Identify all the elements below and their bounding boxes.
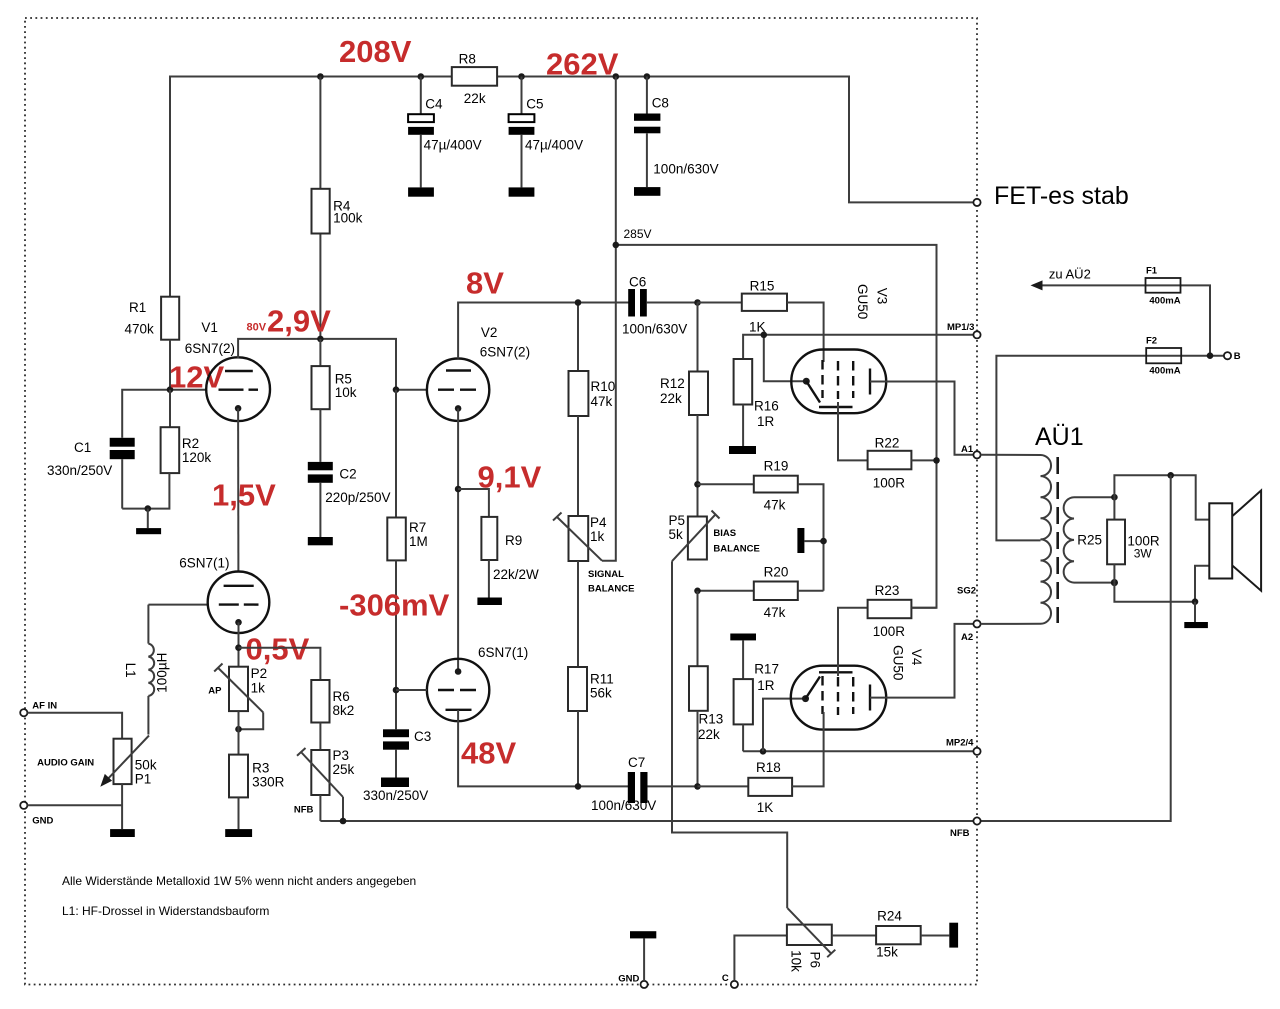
wire 285V horizontal to screen feed [616, 245, 937, 608]
potentiometer P4 SIGNAL BALANCE [553, 513, 634, 595]
svg-text:P6: P6 [808, 952, 823, 969]
wire V4 plate to A2 [870, 624, 973, 698]
wire V1b cathode to 0,5V node [238, 622, 240, 666]
resistor R19 [698, 459, 824, 591]
ground below C5 [509, 187, 535, 196]
svg-text:1M: 1M [409, 534, 428, 549]
svg-text:R7: R7 [409, 520, 426, 535]
wire 8V rail to C6 / R10 [577, 303, 579, 372]
svg-text:50k: 50k [135, 758, 157, 773]
svg-text:P2: P2 [251, 666, 268, 681]
resistor R12 [660, 372, 708, 517]
node F1/F2 junction dot [1207, 352, 1214, 359]
node V4 cathode/R17 junction dot [760, 748, 767, 755]
svg-text:47µ/400V: 47µ/400V [525, 138, 583, 153]
wire P2 to R3 [238, 711, 240, 755]
wire V2 cathode down to V2b [457, 408, 459, 673]
svg-text:R6: R6 [333, 689, 350, 704]
svg-text:P5: P5 [669, 513, 686, 528]
tube V1 6SN7(2) upper triode [185, 320, 270, 421]
svg-text:1,5V: 1,5V [212, 478, 276, 513]
wire 0,5V to R6 [239, 648, 321, 680]
resistor R20 [698, 565, 824, 620]
wire V3 screen g2 to R22 [838, 402, 868, 460]
svg-text:FET-es stab: FET-es stab [994, 182, 1129, 210]
terminal B [1224, 352, 1231, 359]
capacitor C5 [509, 77, 583, 188]
svg-text:10k: 10k [335, 385, 357, 400]
svg-text:10k: 10k [789, 950, 804, 972]
svg-text:48V: 48V [461, 736, 516, 771]
svg-text:47µ/400V: 47µ/400V [424, 138, 482, 153]
resistor R1 [125, 297, 180, 390]
svg-text:R19: R19 [764, 459, 789, 474]
svg-text:6SN7(1): 6SN7(1) [179, 555, 229, 570]
terminal GND bottom [641, 981, 648, 988]
svg-text:AP: AP [208, 685, 222, 696]
wire 285V rail / P4 wiper line [602, 77, 616, 561]
wire 12V node [122, 390, 206, 438]
transformer AÜ1 core [1056, 457, 1059, 623]
svg-text:1K: 1K [757, 800, 774, 815]
svg-text:NFB: NFB [950, 828, 970, 839]
wire secondary top to R25 [1074, 496, 1114, 498]
fuse F2 [1146, 336, 1181, 377]
node NFB tap junction dot [1167, 472, 1174, 479]
tube V3 GU50 [791, 284, 889, 413]
resistor R22 [868, 436, 937, 491]
svg-text:C: C [722, 973, 729, 984]
transformer AÜ1 primary winding [1041, 455, 1052, 624]
svg-text:R1: R1 [129, 300, 146, 315]
terminal NFB [973, 817, 980, 824]
resistor R11 [568, 667, 614, 786]
node V2 grid junction dot [393, 386, 400, 393]
svg-text:80V: 80V [247, 322, 267, 334]
wire V3 plate to A1 [870, 382, 973, 455]
svg-text:1k: 1k [590, 529, 605, 544]
wire GND to P1 bottom [27, 804, 122, 806]
node 2,9V junction dot (R4/R5) [317, 336, 324, 343]
terminal MP1/3 [973, 331, 980, 338]
speaker LS [1209, 491, 1261, 591]
wire V4 screen g2 to R23 [838, 608, 868, 676]
svg-text:-306mV: -306mV [339, 588, 450, 623]
svg-text:3W: 3W [1134, 547, 1153, 561]
svg-text:R9: R9 [505, 533, 522, 548]
node C7/R18 junction dot [694, 783, 701, 790]
node secondary top junction dot [1111, 494, 1118, 501]
ground right of R24 (vertical bar) [949, 923, 958, 948]
svg-text:470k: 470k [125, 321, 155, 336]
wire P4 bottom to R11 [577, 561, 579, 667]
terminal GND input [20, 802, 27, 809]
svg-text:1k: 1k [251, 680, 266, 695]
svg-text:GU50: GU50 [855, 284, 870, 319]
svg-text:R16: R16 [754, 399, 779, 414]
svg-text:100n/630V: 100n/630V [653, 161, 718, 176]
terminal FET-es stab [973, 199, 980, 206]
svg-text:A1: A1 [961, 444, 974, 455]
wire P3 bottom to NFB line [319, 795, 321, 821]
svg-text:zu AÜ2: zu AÜ2 [1049, 266, 1091, 281]
wire NFB line [320, 475, 1170, 821]
svg-text:F1: F1 [1146, 266, 1158, 277]
svg-text:R22: R22 [875, 436, 900, 451]
node 208V junction dot [317, 73, 324, 80]
wire B+ top rail 208V/262V [170, 77, 974, 297]
svg-text:220p/250V: 220p/250V [325, 490, 390, 505]
wire C6 node to R15 [698, 302, 742, 304]
svg-text:C2: C2 [339, 467, 356, 482]
resistor R17 [734, 661, 779, 751]
wire speaker hot lead [1114, 475, 1209, 519]
resistor R15 [742, 278, 787, 334]
svg-text:208V: 208V [339, 34, 412, 69]
svg-text:R17: R17 [754, 661, 779, 676]
wire V2b grid to R7/C3 node [396, 689, 427, 691]
svg-text:BIAS: BIAS [713, 528, 736, 539]
potentiometer P1 AUDIO GAIN [37, 736, 157, 787]
svg-text:330n/250V: 330n/250V [47, 463, 112, 478]
ground below R9 [477, 598, 502, 606]
svg-text:L1: HF-Drossel in Widerstandsb: L1: HF-Drossel in Widerstandsbauform [62, 904, 269, 918]
wire AF IN to P1 [27, 713, 122, 739]
wire V2 plate to 8V rail [458, 303, 628, 359]
svg-text:47k: 47k [764, 497, 786, 512]
terminal AF IN [20, 709, 27, 716]
resistor R24 [832, 908, 950, 959]
svg-text:1R: 1R [757, 414, 775, 429]
svg-text:100R: 100R [873, 475, 906, 490]
resistor R10 [569, 371, 616, 516]
svg-text:V2: V2 [481, 325, 498, 340]
resistor R3 [229, 755, 285, 830]
svg-text:R10: R10 [591, 379, 616, 394]
node C1/R2 junction dot [145, 505, 152, 512]
capacitor C4 [408, 77, 482, 188]
wire V1 plate to 2,9V node [238, 339, 427, 390]
ground below C4 [408, 187, 434, 196]
capacitor C3 [363, 729, 431, 803]
svg-text:5k: 5k [669, 527, 684, 542]
svg-text:56k: 56k [590, 686, 612, 701]
resistor R16 [734, 359, 779, 446]
svg-text:R23: R23 [875, 583, 900, 598]
ground below R16 [729, 446, 756, 454]
node 12V junction dot [167, 386, 174, 393]
wire R12 column [697, 303, 699, 372]
node C8 junction dot [644, 73, 651, 80]
svg-text:C5: C5 [526, 96, 543, 111]
svg-text:100R: 100R [873, 624, 906, 639]
node V2b grid junction dot [393, 687, 400, 694]
terminal A2 [973, 620, 980, 627]
svg-text:R20: R20 [764, 565, 789, 580]
wire V4 cathode pin [763, 699, 806, 752]
node 285V junction dot [613, 242, 620, 249]
capacitor C8 [634, 77, 719, 188]
svg-text:MP1/3: MP1/3 [947, 322, 974, 333]
node R19 junction dot [694, 481, 701, 488]
tube V4 GU50 [791, 645, 924, 730]
transformer AÜ1 secondary winding [1064, 497, 1074, 582]
svg-text:BALANCE: BALANCE [713, 543, 759, 554]
node 8V/R10 junction dot [575, 299, 582, 306]
svg-text:22k: 22k [464, 91, 486, 106]
resistor R7 [387, 390, 427, 730]
resistor R18 [698, 712, 824, 815]
svg-text:R24: R24 [877, 908, 902, 923]
wire L1 to V1b grid [148, 604, 207, 606]
wire A1 to primary [981, 454, 1041, 456]
svg-text:47k: 47k [591, 394, 613, 409]
svg-text:6SN7(1): 6SN7(1) [478, 645, 528, 660]
fuse F1 [1146, 266, 1181, 307]
capacitor C6 [622, 275, 698, 337]
wire B feed to transformer tap [996, 356, 1223, 541]
tube V2b 6SN7(1) lower triode [427, 645, 528, 721]
resistor R25 [1077, 497, 1160, 582]
svg-text:BALANCE: BALANCE [588, 584, 634, 595]
resistor R5 [312, 339, 357, 462]
svg-text:C3: C3 [414, 729, 431, 744]
svg-text:C1: C1 [74, 440, 91, 455]
terminal A1 [973, 451, 980, 458]
node R20 junction dot [694, 588, 701, 595]
terminal C [731, 981, 738, 988]
inductor L1 [123, 605, 170, 735]
node bias center junction dot [820, 538, 827, 545]
wire V3 cathode to R16/MP1/3 [764, 335, 807, 381]
wire R15 to V3 grid g1 [787, 303, 824, 363]
svg-text:47k: 47k [764, 605, 786, 620]
svg-text:285V: 285V [624, 227, 652, 241]
svg-text:R12: R12 [660, 376, 685, 391]
svg-text:R13: R13 [699, 712, 724, 727]
resistor R6 [311, 680, 354, 750]
svg-text:8k2: 8k2 [333, 703, 355, 718]
svg-text:P3: P3 [333, 748, 350, 763]
node 262V junction dot [518, 73, 525, 80]
terminal MP2/4 [973, 748, 980, 755]
svg-text:400mA: 400mA [1149, 296, 1180, 307]
svg-text:NFB: NFB [294, 805, 314, 816]
svg-text:GU50: GU50 [891, 645, 906, 680]
potentiometer P3 NFB [294, 748, 355, 821]
node 285V feed junction dot [613, 73, 620, 80]
svg-text:AF IN: AF IN [32, 701, 57, 712]
node P3 wiper junction dot [340, 818, 347, 825]
resistor R2 [148, 390, 212, 509]
wire P5 wiper to P6 [672, 561, 787, 908]
svg-text:330R: 330R [252, 775, 285, 790]
svg-text:SG2: SG2 [957, 586, 976, 597]
node C4 junction dot [418, 73, 425, 80]
ground below C8 [634, 187, 660, 196]
svg-text:P4: P4 [590, 515, 607, 530]
svg-text:262V: 262V [546, 47, 619, 82]
svg-text:22k: 22k [698, 727, 720, 742]
svg-text:R2: R2 [182, 436, 199, 451]
svg-text:GND: GND [618, 974, 639, 985]
svg-text:V3: V3 [875, 288, 890, 305]
ground below P1 [110, 829, 135, 837]
node R22/285V junction dot [933, 457, 940, 464]
svg-text:V1: V1 [201, 320, 218, 335]
potentiometer P6 [787, 908, 835, 972]
ground below C2 [308, 537, 333, 545]
wire V1 cathode down to V1b plate [237, 408, 239, 571]
svg-text:V4: V4 [909, 649, 924, 666]
svg-text:22k: 22k [660, 391, 682, 406]
node P2 wiper junction dot [235, 726, 242, 733]
svg-text:1R: 1R [757, 678, 775, 693]
svg-text:MP2/4: MP2/4 [946, 738, 974, 749]
svg-text:R25: R25 [1077, 532, 1102, 547]
svg-text:R18: R18 [756, 760, 781, 775]
svg-text:100k: 100k [333, 211, 363, 226]
svg-text:AÜ1: AÜ1 [1035, 423, 1084, 451]
resistor R13 [689, 591, 723, 787]
node 9,1V junction dot [455, 486, 462, 493]
ground above R17 [730, 634, 756, 680]
node R11/C7 junction dot [575, 783, 582, 790]
svg-text:0,5V: 0,5V [246, 632, 310, 667]
svg-text:C8: C8 [652, 95, 669, 110]
svg-text:C7: C7 [628, 755, 645, 770]
node speaker ground junction dot [1192, 598, 1199, 605]
node V3 cathode/R16 junction dot [761, 332, 768, 339]
svg-text:400mA: 400mA [1149, 366, 1180, 377]
ground below R3 [225, 829, 252, 837]
potentiometer P2 AP [208, 664, 267, 730]
svg-text:6SN7(2): 6SN7(2) [185, 341, 235, 356]
wire C to P6 [734, 936, 787, 981]
node C6/R15/R12 junction dot [694, 299, 701, 306]
capacitor C2 [308, 462, 391, 537]
resistor R23 [868, 583, 937, 639]
tube V2 6SN7(2) upper triode [427, 325, 530, 421]
svg-text:B: B [1234, 351, 1241, 362]
svg-text:100n/630V: 100n/630V [622, 322, 687, 337]
wire MP1/3 line [743, 335, 973, 359]
svg-text:P1: P1 [135, 772, 152, 787]
ground bias center (vertical bar) [797, 528, 823, 553]
ground below speaker [1184, 602, 1208, 628]
ground below C3 [381, 778, 409, 788]
potentiometer P5 BIAS BALANCE [669, 511, 760, 562]
svg-text:R3: R3 [252, 761, 269, 776]
svg-text:120k: 120k [182, 450, 212, 465]
wire A2 to primary [981, 623, 1041, 625]
capacitor C7 [591, 755, 698, 813]
svg-text:R8: R8 [459, 52, 476, 67]
svg-text:C4: C4 [425, 96, 443, 111]
wire V2b plate to C7 line [458, 710, 628, 786]
svg-text:A2: A2 [961, 632, 973, 643]
svg-text:C6: C6 [629, 275, 646, 290]
svg-text:SIGNAL: SIGNAL [588, 569, 624, 580]
ground below R2/C1 [136, 509, 161, 535]
ground at GND terminal [630, 931, 656, 981]
svg-text:330n/250V: 330n/250V [363, 788, 428, 803]
resistor R8 [452, 52, 497, 106]
svg-text:R11: R11 [590, 672, 614, 687]
node 0,5V junction dot [235, 644, 242, 651]
svg-text:GND: GND [32, 815, 53, 826]
svg-text:AUDIO GAIN: AUDIO GAIN [37, 758, 94, 769]
resistor R4 [312, 77, 363, 339]
wire 9,1V to R9 [458, 489, 489, 517]
svg-text:F2: F2 [1146, 336, 1157, 347]
svg-text:15k: 15k [876, 945, 898, 960]
svg-text:25k: 25k [333, 762, 355, 777]
svg-text:2,9V: 2,9V [267, 304, 331, 339]
capacitor C1 [47, 438, 148, 509]
svg-text:100n/630V: 100n/630V [591, 798, 656, 813]
wire secondary bottom to R25 [1074, 582, 1114, 584]
svg-text:6SN7(2): 6SN7(2) [480, 345, 530, 360]
resistor R9 [481, 517, 539, 598]
node secondary bottom junction dot [1111, 579, 1118, 586]
svg-text:8V: 8V [466, 266, 504, 301]
svg-text:22k/2W: 22k/2W [493, 567, 539, 582]
wire speaker cold lead [1114, 566, 1209, 602]
svg-text:Alle Widerstände Metalloxid 1W: Alle Widerstände Metalloxid 1W 5% wenn n… [62, 874, 416, 888]
svg-text:L1: L1 [123, 663, 138, 678]
svg-text:R15: R15 [750, 278, 775, 293]
svg-text:100µH: 100µH [155, 653, 170, 693]
wire MP2/4 line [743, 750, 973, 752]
wire zu AÜ2 arrow line [1033, 285, 1210, 355]
tube V1b 6SN7(1) lower triode [179, 555, 269, 633]
